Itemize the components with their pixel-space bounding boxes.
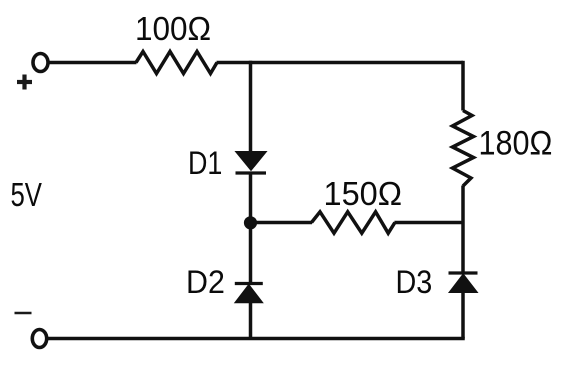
resistor R2 150ohm zigzag bbox=[312, 212, 395, 233]
resistor R3 180ohm vertical zigzag bbox=[453, 111, 474, 187]
svg-text:D1: D1 bbox=[188, 146, 222, 182]
wire bottom rail: - terminal to bottom-right corner bbox=[47, 337, 465, 341]
terminal - (bottom-left open circle) bbox=[32, 330, 46, 348]
plus sign polarity mark bbox=[17, 75, 32, 90]
wire right rail: top-right corner down to resistor R3 bbox=[461, 61, 465, 111]
wire middle rail: resistor R2 to right vertical rail bbox=[394, 221, 463, 225]
svg-text:5V: 5V bbox=[11, 177, 43, 214]
diode D2 (cathode up) bar and triangle bbox=[235, 284, 263, 303]
svg-text:D3: D3 bbox=[396, 265, 433, 301]
wire top rail: + terminal to resistor R1 bbox=[49, 61, 137, 65]
wire right rail: diode D3 anode down to bottom rail bbox=[461, 292, 465, 339]
diode D3 (cathode up) bar and triangle bbox=[449, 273, 478, 293]
node junction dot (D1/D2/R2 net) bbox=[244, 216, 257, 229]
wire top rail: resistor R1 to top-right corner bbox=[217, 61, 464, 65]
svg-text:180Ω: 180Ω bbox=[479, 124, 553, 162]
terminal + (top-left open circle) bbox=[33, 54, 48, 72]
resistor R1 100ohm zigzag bbox=[136, 52, 217, 74]
wire left branch: D1 cathode down to node bbox=[249, 173, 253, 223]
wire left branch: top rail junction down to diode D1 anode bbox=[249, 61, 253, 153]
svg-text:D2: D2 bbox=[186, 264, 225, 300]
wire left branch: diode D2 anode down to bottom rail bbox=[249, 302, 253, 339]
svg-text:100Ω: 100Ω bbox=[135, 10, 211, 47]
diode D1 (cathode down) triangle and cathode bar bbox=[236, 152, 267, 174]
wire left branch: node down to diode D2 cathode bbox=[249, 223, 253, 285]
svg-text:150Ω: 150Ω bbox=[324, 175, 403, 213]
wire middle rail: node to resistor R2 bbox=[251, 221, 313, 225]
minus sign polarity mark bbox=[15, 312, 32, 315]
wire right rail: resistor R3 down to diode D3 cathode bbox=[461, 186, 465, 274]
